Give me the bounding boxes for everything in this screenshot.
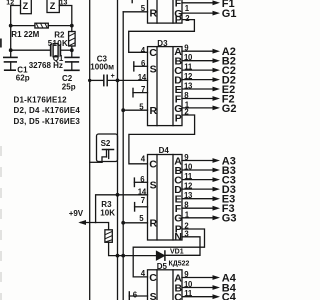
wire +9V rail to D4 pin 14 [96, 195, 148, 223]
switch S2 box [97, 134, 118, 162]
wire bus B (+9V rail vertical) [117, 0, 119, 300]
arrow B4 [213, 285, 221, 290]
arrow C3 [213, 177, 221, 182]
svg-text:D1-К176ИЕ12: D1-К176ИЕ12 [14, 96, 68, 105]
resistor R3 body [105, 230, 112, 243]
svg-text:VD1: VD1 [170, 249, 184, 256]
arrow G3 [213, 215, 221, 220]
wire R3 top lead [96, 223, 109, 230]
arrow D2 [213, 77, 221, 82]
svg-text:Z: Z [23, 1, 29, 11]
wire bus C (reset line vertical) [122, 12, 124, 300]
wire D3 output C [182, 69, 213, 71]
svg-text:C: C [149, 159, 157, 171]
arrow F2 [213, 96, 221, 101]
svg-text:+9V: +9V [69, 209, 84, 218]
capacitor C3 (electrolytic) [90, 75, 108, 85]
wire D4.P to D5.C (divide chain) [133, 229, 204, 277]
ground bar of C1 [5, 69, 16, 71]
wire D5 output B [182, 287, 213, 289]
svg-text:КД522: КД522 [169, 260, 190, 267]
wire D4 output C [182, 179, 213, 181]
svg-text:11: 11 [184, 172, 193, 181]
svg-text:S: S [150, 179, 157, 191]
arrow C4 [213, 294, 221, 299]
arrow F1 [213, 0, 221, 5]
wire diode line left [118, 255, 158, 257]
dashed boundary line at left edge [0, 146, 2, 300]
wire D4 pin 5 R to bus C [123, 222, 147, 224]
wire D3 output F [182, 98, 213, 100]
svg-text:S2: S2 [101, 139, 111, 148]
wire D2 output F [182, 2, 213, 4]
arrow E2 [213, 87, 221, 92]
svg-text:+: + [111, 73, 115, 80]
junction node D4 reset on bus C [121, 221, 125, 225]
svg-text:D3, D5 -К176ИЕ3: D3, D5 -К176ИЕ3 [14, 117, 81, 126]
svg-text:62p: 62p [16, 73, 30, 82]
IC D1 section 2 (inverter Z, partial at top) [47, 0, 59, 13]
wire D4 output D [182, 188, 213, 190]
junction node diode line on bus B [116, 254, 120, 258]
wire +9V feed line [81, 222, 96, 224]
wire crystal line left [11, 49, 51, 51]
svg-text:7: 7 [141, 85, 145, 94]
IC D4 box [148, 155, 183, 241]
wire D3 output E [182, 88, 213, 90]
arrow A4 [213, 275, 221, 280]
wire pin 12 of D1 down-left [11, 6, 21, 58]
svg-text:S: S [150, 64, 157, 76]
svg-text:C: C [149, 272, 157, 284]
junction node crystal/R2/C2 [70, 48, 74, 52]
svg-text:11: 11 [184, 63, 193, 72]
svg-text:R: R [150, 8, 158, 20]
svg-text:C: C [174, 292, 182, 300]
junction node crystal/C1 [9, 48, 13, 52]
svg-text:13: 13 [184, 191, 193, 200]
wire R1 left lead [11, 25, 35, 27]
wire D4 pin 7 stub with bar [135, 203, 148, 211]
svg-text:12: 12 [184, 182, 193, 191]
svg-text:10K: 10K [100, 209, 115, 218]
wire bus A (common rail, left vertical) [89, 0, 91, 300]
wire D3 output D [182, 79, 213, 81]
svg-text:R1 22M: R1 22M [11, 30, 39, 39]
svg-text:25p: 25p [62, 82, 76, 91]
wire D3.P to D4.C (divide chain) [129, 115, 195, 164]
junction node diode line on bus C [121, 254, 125, 258]
ground bar of C2 [65, 69, 79, 71]
wire D3 pin 6 S stub with bar [134, 62, 148, 71]
svg-text:R: R [150, 218, 158, 230]
wire D3 output A [182, 50, 213, 52]
stray mark left edge [0, 39, 2, 48]
IC D3 box [148, 47, 183, 126]
junction node C3 on bus B [116, 79, 120, 83]
svg-text:C4: C4 [222, 292, 237, 300]
arrow +9V (points left) [78, 220, 86, 225]
wire D4 output B [182, 169, 213, 171]
svg-text:10: 10 [184, 163, 193, 172]
svg-text:P: P [175, 14, 182, 26]
svg-text:G1: G1 [222, 8, 237, 20]
arrow D3 [213, 187, 221, 192]
svg-text:S: S [150, 291, 157, 300]
svg-text:N: N [174, 231, 182, 243]
wire D5 pin 6 S stub with bar [129, 292, 147, 300]
svg-text:Z: Z [50, 1, 56, 11]
arrow G1 [213, 11, 221, 16]
svg-text:12: 12 [6, 0, 14, 7]
svg-text:R: R [150, 105, 158, 117]
wire D4 pin 6 S stub with bar [134, 178, 147, 186]
arrow G2 [213, 106, 221, 111]
svg-text:D4: D4 [159, 146, 170, 155]
wire R3 bottom lead to diode line [109, 242, 118, 255]
wire S2 to bus A [90, 161, 102, 163]
svg-text:10: 10 [184, 280, 193, 289]
wire C3 to D3 pin 14 [108, 79, 148, 81]
IC D1 section 1 (inverter Z, partial at top) [21, 0, 32, 14]
svg-text:P: P [175, 113, 182, 125]
svg-text:10: 10 [184, 53, 193, 62]
IC D5 box (partial at bottom) [148, 270, 183, 300]
svg-text:12: 12 [184, 72, 193, 81]
svg-text:G3: G3 [222, 213, 237, 225]
svg-text:11: 11 [184, 289, 193, 298]
arrow C2 [213, 68, 221, 73]
arrow A2 [213, 49, 221, 54]
wire D4 output E [182, 198, 213, 200]
wire D5 output A [182, 277, 213, 279]
svg-text:D2, D4 -К176ИЕ4: D2, D4 -К176ИЕ4 [14, 106, 81, 115]
svg-text:32768 Hz: 32768 Hz [29, 61, 63, 70]
arrow B2 [213, 58, 221, 63]
diode VD1 [156, 251, 165, 260]
wire D4 output G [182, 217, 213, 219]
wire D3 pin 7 stub with bar [133, 88, 148, 96]
wire D3 output B [182, 60, 213, 62]
svg-text:C: C [149, 47, 157, 59]
svg-text:13: 13 [184, 82, 193, 91]
capacitor C2 [65, 57, 79, 70]
wire R2 bottom lead [71, 46, 73, 57]
capacitor C1 [4, 57, 17, 70]
switch S2 pushbutton symbol [102, 150, 114, 163]
wire D3 output G [182, 107, 213, 109]
arrow E3 [213, 196, 221, 201]
svg-text:14: 14 [138, 73, 147, 82]
svg-text:7: 7 [141, 196, 145, 205]
svg-text:13: 13 [60, 0, 68, 6]
wire D4 output F [182, 207, 213, 209]
resistor R2 body [69, 32, 76, 47]
svg-text:D5: D5 [157, 262, 168, 271]
svg-text:1000м: 1000м [90, 62, 114, 71]
wire D2.P to D3.C (divide chain) [129, 20, 195, 53]
wire D5 output C [182, 296, 213, 298]
wire R1 right lead [48, 25, 72, 27]
junction node C3 on bus A [88, 79, 91, 82]
arrow A3 [213, 158, 221, 163]
svg-text:510K: 510K [48, 39, 68, 48]
svg-text:D3: D3 [157, 39, 168, 48]
wire D2 pin 5 R to bus C [123, 11, 147, 13]
resistor R1 body [35, 23, 48, 28]
wire D4 output A [182, 160, 213, 162]
arrow F3 [213, 206, 221, 211]
stub D2 pin 7 bar remnant [131, 0, 133, 3]
junction node D3 reset on bus C [121, 108, 125, 112]
wire pin 13 of D1 down to R2 [59, 6, 72, 32]
junction node R1/pin12 [9, 24, 13, 28]
svg-text:G2: G2 [222, 103, 237, 115]
junction node +9V on bus B [116, 193, 120, 197]
IC D2 box (partial at top) [148, 0, 183, 23]
wire diode line right to D4 pin N [165, 237, 200, 256]
crystal Q1 [51, 44, 61, 57]
arrow B3 [213, 168, 221, 173]
wire crystal line right [61, 49, 72, 51]
wire D2 output G [182, 12, 213, 14]
junction node R1/R2/pin13 [70, 24, 74, 28]
wire D3 pin 5 R to bus C [123, 109, 147, 111]
